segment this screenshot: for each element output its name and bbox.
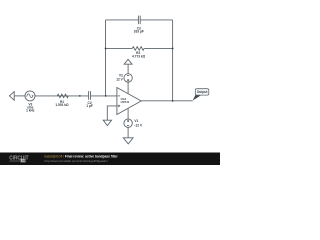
svg-text:Output: Output bbox=[197, 90, 209, 94]
svg-text:1.591 kΩ: 1.591 kΩ bbox=[55, 103, 69, 107]
svg-text:LM741: LM741 bbox=[121, 100, 130, 104]
svg-text:1 µF: 1 µF bbox=[86, 104, 92, 108]
svg-text:-12 V: -12 V bbox=[134, 124, 142, 128]
svg-text:http://www.circuitlab.com/circ: http://www.circuitlab.com/circuit/c2ge3h… bbox=[45, 159, 108, 163]
svg-text:12 V: 12 V bbox=[116, 78, 123, 82]
svg-text:4.773 kΩ: 4.773 kΩ bbox=[132, 54, 146, 58]
svg-text:1 kHz: 1 kHz bbox=[26, 109, 35, 113]
svg-text:333 pF: 333 pF bbox=[134, 30, 144, 34]
svg-text:V1: V1 bbox=[134, 119, 138, 123]
svg-text:LAB: LAB bbox=[20, 159, 26, 163]
